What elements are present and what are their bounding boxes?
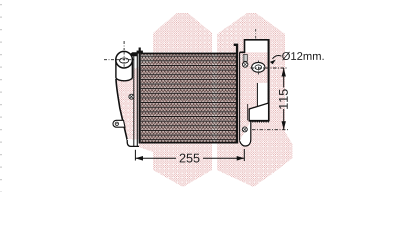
right tank centerline bbox=[255, 29, 257, 40]
right port ellipse (Ø12) bbox=[252, 61, 265, 75]
left port centerline vertical bbox=[123, 41, 125, 50]
left inlet cylinder bbox=[116, 60, 132, 81]
dim 115 line and arrows bbox=[282, 68, 286, 130]
left tank body bbox=[100, 53, 139, 147]
left tank screw boss bbox=[129, 94, 134, 99]
watermark hexagon B bbox=[217, 13, 293, 187]
watermark left patch bbox=[116, 62, 153, 152]
right tank bolt detail bbox=[243, 55, 248, 68]
dim 255 text bbox=[180, 154, 200, 163]
Ø12mm leader arrow bbox=[270, 55, 282, 64]
dim 255 line and arrows bbox=[135, 156, 244, 161]
dim 255 ticks bbox=[135, 149, 244, 161]
dim 115 text bbox=[279, 89, 288, 109]
core left end plate bbox=[137, 48, 143, 144]
right tank body bbox=[240, 39, 269, 141]
port centerline to 115 top tick bbox=[251, 67, 289, 69]
left bracket tab bbox=[113, 120, 125, 127]
core bbox=[141, 53, 236, 144]
right tank bottom foot bbox=[240, 121, 251, 146]
right lower bracket block bbox=[249, 103, 269, 122]
Ø12mm text bbox=[282, 52, 324, 60]
left port centerline horizontal bbox=[104, 59, 134, 61]
watermark hexagon A bbox=[153, 13, 212, 187]
left inlet port circle bbox=[116, 51, 133, 68]
right lower screw hole bbox=[242, 127, 247, 132]
core right end plate bbox=[234, 44, 239, 144]
left tank top lip bbox=[130, 52, 138, 56]
screw centerline to 115 bottom tick bbox=[252, 129, 289, 131]
right block inner edge line bbox=[247, 104, 249, 120]
left page border dotted bbox=[0, 4, 2, 192]
